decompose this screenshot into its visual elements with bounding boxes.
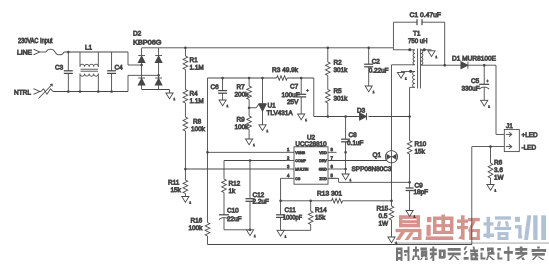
wire to J1: [495, 65, 497, 134]
pin 7: [328, 160, 337, 162]
wire DRV gate: [328, 160, 387, 162]
svg-text:R3 49.9k: R3 49.9k: [272, 67, 299, 74]
svg-text:1.1M: 1.1M: [190, 98, 204, 105]
diode D2a: [138, 55, 145, 57]
wire VDD line: [314, 116, 360, 118]
svg-text:200k: 200k: [235, 92, 250, 99]
svg-text:NTRL: NTRL: [14, 90, 31, 97]
ground (R9): [246, 139, 253, 145]
svg-text:-LED: -LED: [522, 145, 537, 152]
wire bottom bus: [208, 244, 472, 246]
ground (secondary): [428, 51, 435, 57]
svg-text:18pF: 18pF: [414, 189, 429, 196]
svg-text:15k: 15k: [315, 215, 326, 222]
svg-text:1000pF: 1000pF: [283, 215, 302, 222]
svg-text:25V: 25V: [287, 99, 299, 106]
svg-text:R1: R1: [190, 57, 199, 64]
ground (C2): [365, 86, 372, 92]
T1 aux winding: [409, 70, 412, 73]
pin 2: [286, 160, 295, 162]
svg-text:VSNS: VSNS: [295, 151, 305, 155]
svg-text:CS: CS: [295, 177, 301, 181]
svg-text:ZCD: ZCD: [319, 177, 327, 181]
T1 secondary winding: [423, 48, 426, 51]
wire -LED return: [472, 146, 505, 148]
ground (C5): [481, 100, 488, 106]
svg-text:1W: 1W: [379, 221, 390, 228]
wire to MULTIN: [184, 131, 186, 169]
svg-text:J1: J1: [506, 123, 513, 130]
svg-text:D1 MUR8100E: D1 MUR8100E: [452, 56, 497, 63]
svg-text:230VAC Input: 230VAC Input: [18, 38, 53, 45]
svg-text:15k: 15k: [171, 187, 182, 194]
svg-text:C7: C7: [290, 84, 299, 91]
ground (C9): [406, 211, 413, 217]
ground (bridge): [169, 90, 171, 94]
svg-text:R14: R14: [315, 207, 327, 214]
svg-text:100uF: 100uF: [282, 92, 300, 99]
svg-text:R9: R9: [237, 117, 246, 124]
svg-text:100k: 100k: [189, 225, 204, 232]
wire COMP: [224, 160, 286, 162]
wire MULTIN: [185, 168, 285, 170]
wire secondary to D1: [445, 64, 461, 66]
ground (R15): [388, 237, 395, 243]
watermark: [394, 215, 549, 261]
wire drain: [391, 65, 393, 151]
ground (aux): [397, 72, 404, 78]
svg-text:C6: C6: [211, 84, 220, 91]
ground (U1): [259, 125, 266, 131]
svg-text:0.5: 0.5: [379, 213, 388, 220]
svg-text:C5: C5: [471, 78, 480, 85]
ground (C8/GND): [342, 174, 349, 180]
svg-text:D2: D2: [133, 31, 142, 38]
svg-text:COMP: COMP: [295, 159, 306, 163]
svg-text:VDD: VDD: [319, 151, 327, 155]
pin 8: [328, 151, 337, 153]
svg-text:330uF: 330uF: [462, 86, 480, 93]
pin 4: [286, 177, 295, 179]
T1 primary winding: [392, 48, 394, 50]
ground (C6): [219, 100, 226, 106]
wire VSNS: [207, 78, 209, 152]
svg-text:MULTIN: MULTIN: [295, 168, 309, 172]
ground (C11): [277, 230, 284, 236]
svg-text:301k: 301k: [334, 96, 349, 103]
svg-text:L1: L1: [85, 45, 93, 52]
svg-text:C3: C3: [55, 65, 64, 72]
svg-text:+LED: +LED: [522, 132, 539, 139]
wire NTRL to bridge: [53, 91, 128, 93]
svg-text:Q1: Q1: [373, 152, 382, 159]
svg-text:0.22uF: 0.22uF: [369, 68, 389, 75]
svg-text:22uF: 22uF: [227, 216, 242, 223]
wire ZCD: [328, 177, 339, 179]
svg-text:R2: R2: [334, 60, 343, 67]
svg-text:R11: R11: [168, 180, 180, 187]
svg-text:C10: C10: [227, 208, 239, 215]
wire LINE to bridge: [64, 51, 128, 53]
svg-text:301k: 301k: [334, 67, 349, 74]
wire VSNS sub-rail: [208, 77, 277, 79]
svg-text:R12: R12: [229, 181, 241, 188]
svg-text:100k: 100k: [235, 124, 250, 131]
diode D2d: [155, 77, 162, 79]
svg-text:DRV: DRV: [319, 159, 327, 163]
pin 1: [286, 151, 295, 153]
svg-text:R13 301: R13 301: [317, 191, 342, 198]
svg-text:KBP06G: KBP06G: [133, 40, 162, 47]
svg-text:1.1M: 1.1M: [190, 65, 204, 72]
svg-text:2.2uF: 2.2uF: [253, 199, 269, 206]
svg-text:C1 0.47uF: C1 0.47uF: [410, 12, 442, 19]
svg-text:TLV431A: TLV431A: [267, 110, 294, 117]
pin 6: [328, 168, 337, 170]
wire top rail: [159, 47, 394, 49]
wire CS: [281, 177, 286, 179]
svg-text:1k: 1k: [229, 188, 237, 195]
svg-text:LINE: LINE: [17, 50, 33, 57]
svg-text:15k: 15k: [415, 149, 426, 156]
ground (C7): [298, 114, 305, 120]
ground (R6): [487, 185, 494, 191]
diode D2c: [138, 77, 145, 79]
svg-text:GND: GND: [319, 168, 327, 172]
svg-text:R8: R8: [193, 119, 202, 126]
svg-text:SPP06N80C3: SPP06N80C3: [352, 166, 392, 173]
varistor RV1: [40, 91, 42, 93]
svg-text:R5: R5: [334, 88, 343, 95]
pin 3: [286, 168, 295, 170]
pin 5: [328, 177, 337, 179]
wire source: [391, 163, 393, 201]
ground (R11): [182, 197, 189, 203]
svg-text:0.1uF: 0.1uF: [347, 140, 363, 147]
svg-text:R16: R16: [191, 218, 203, 225]
svg-text:T1: T1: [413, 31, 421, 38]
svg-text:R6: R6: [494, 160, 503, 167]
svg-text:U1: U1: [268, 103, 277, 110]
ground (C10/C12): [249, 229, 252, 232]
svg-text:3.6: 3.6: [494, 167, 503, 174]
svg-text:100k: 100k: [191, 126, 206, 133]
svg-text:C11: C11: [285, 207, 297, 214]
svg-text:C8: C8: [349, 132, 358, 139]
diode D2b: [155, 55, 162, 57]
fuse F1: [40, 51, 47, 53]
svg-text:R15: R15: [377, 206, 389, 213]
svg-text:R7: R7: [237, 84, 246, 91]
svg-text:750 uH: 750 uH: [408, 38, 428, 45]
svg-text:R4: R4: [190, 91, 199, 98]
svg-text:1W: 1W: [494, 175, 505, 182]
svg-text:R10: R10: [415, 141, 427, 148]
